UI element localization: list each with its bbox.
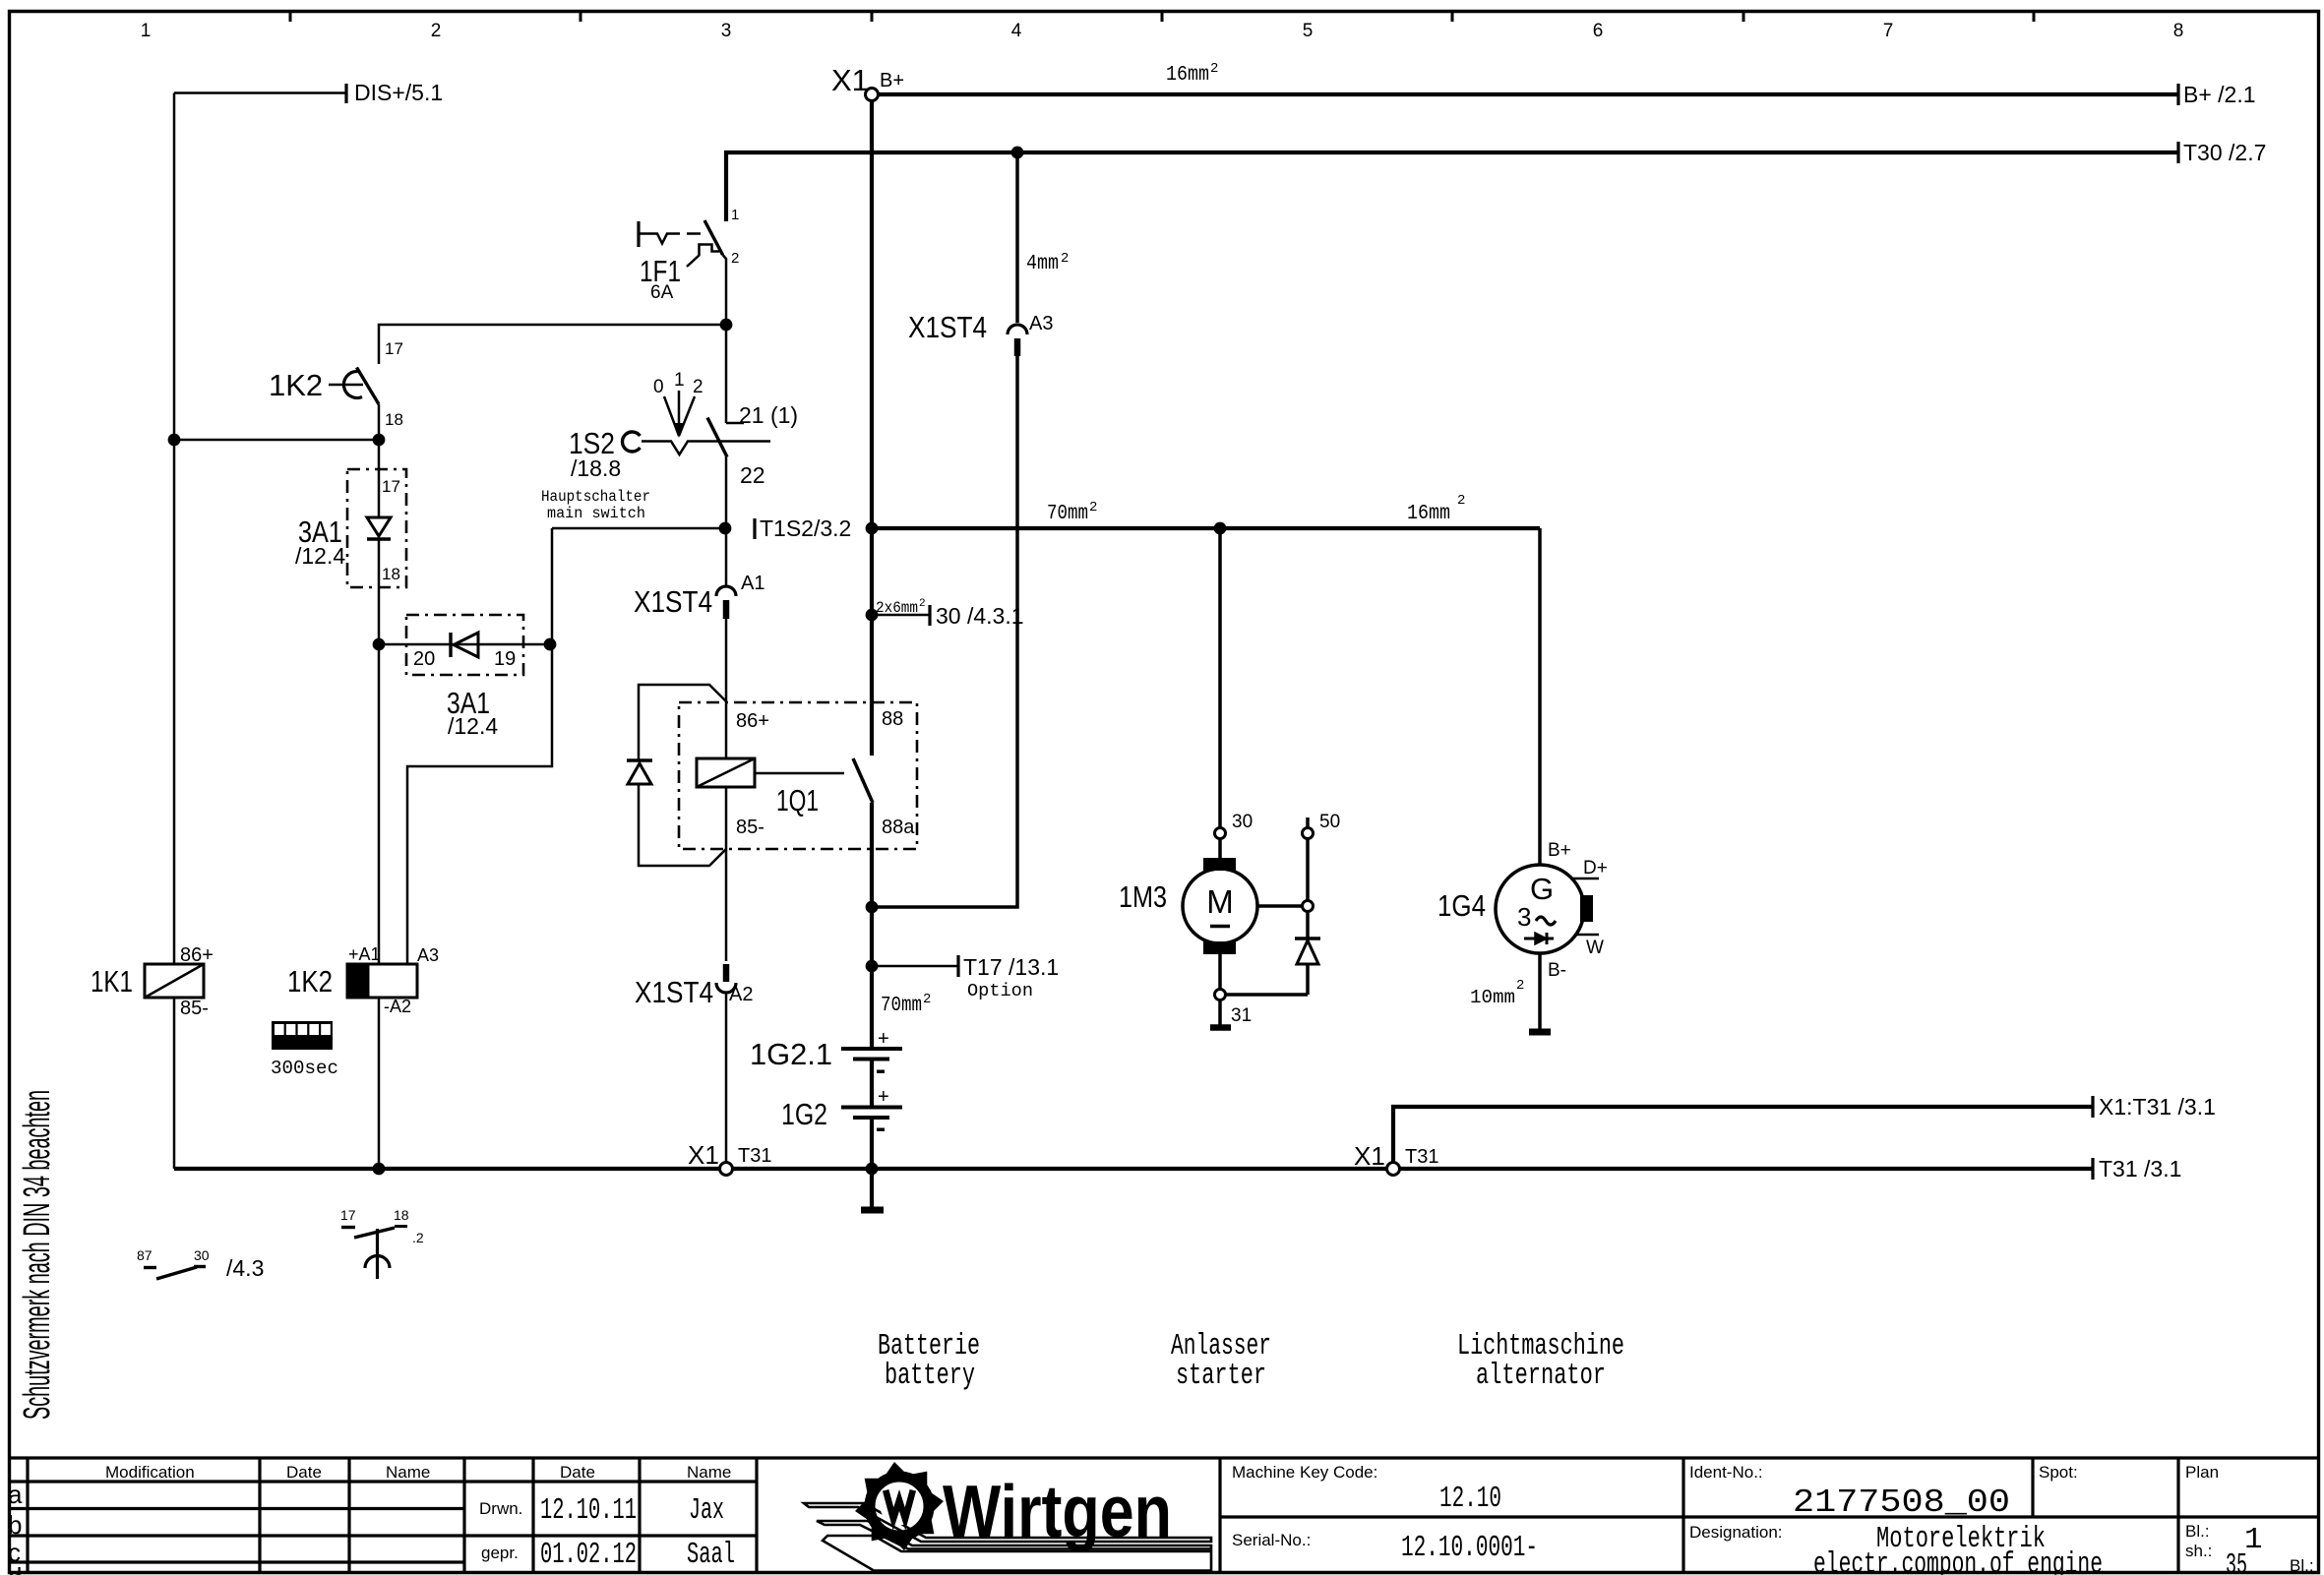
node junction (886,537) (866, 522, 879, 535)
svg-text:Machine Key Code:: Machine Key Code: (1232, 1463, 1377, 1482)
terminal X1 B+ circle (866, 89, 879, 101)
title header texts (105, 1463, 2314, 1575)
svg-text:1G2: 1G2 (781, 1097, 827, 1131)
wire battery to ground (870, 1118, 874, 1207)
svg-text:Serial-No.:: Serial-No.: (1232, 1531, 1311, 1549)
bottom bus T31 (174, 1167, 2093, 1171)
svg-text:2: 2 (731, 250, 739, 267)
svg-text:Bl.:: Bl.: (2290, 1556, 2314, 1575)
svg-text:19: 19 (494, 648, 516, 670)
fuse 1F1 (639, 152, 739, 325)
svg-text:Name: Name (687, 1463, 731, 1482)
node junction (385,1188) (373, 1163, 386, 1176)
svg-text:Hauptschalter: Hauptschalter (541, 488, 650, 506)
svg-text:A1: A1 (741, 573, 764, 594)
terminal tick B+ (2176, 84, 2179, 105)
svg-text:88a: 88a (882, 817, 915, 838)
svg-text:8: 8 (2173, 21, 2184, 41)
svg-text:/18.8: /18.8 (571, 455, 621, 481)
wire B+ 16mm2 (879, 92, 2179, 96)
svg-text:18: 18 (385, 410, 403, 429)
svg-text:18: 18 (382, 565, 400, 583)
relay coil 1K1 (91, 944, 214, 1019)
ground chassis bar battery (861, 1207, 884, 1214)
node junction (177,447) (168, 434, 181, 447)
svg-text:B+: B+ (1548, 840, 1571, 861)
svg-text:86+: 86+ (736, 710, 769, 732)
node junction T1S2 (737,537) (719, 522, 732, 535)
svg-text:alternator: alternator (1476, 1359, 1606, 1393)
svg-text:1G2.1: 1G2.1 (750, 1037, 832, 1071)
wire between cells (870, 1059, 874, 1107)
svg-text:1M3: 1M3 (1119, 879, 1167, 914)
terminal tick T17 (956, 955, 959, 977)
relay contact 1K2 (269, 368, 379, 405)
svg-text:2177508_00: 2177508_00 (1793, 1484, 2010, 1521)
svg-text:X1: X1 (688, 1140, 719, 1170)
svg-text:B+ /2.1: B+ /2.1 (2183, 82, 2256, 107)
svg-text:T17 /13.1: T17 /13.1 (963, 954, 1059, 980)
svg-text:A3: A3 (417, 945, 439, 965)
svg-text:T30 /2.7: T30 /2.7 (2183, 140, 2266, 165)
relay contact 1Q1 88 blade (853, 758, 873, 803)
svg-text:30: 30 (1232, 812, 1253, 832)
svg-text:Wirtgen: Wirtgen (943, 1470, 1172, 1552)
wire 4mm2 vertical (1015, 152, 1019, 323)
wire A1 to 1Q1 (725, 619, 728, 758)
svg-text:Saal: Saal (687, 1538, 735, 1572)
svg-text:Option: Option (967, 982, 1033, 1001)
svg-text:B-: B- (1548, 960, 1566, 981)
svg-text:+A1: +A1 (348, 944, 381, 964)
svg-text:12.10.0001-: 12.10.0001- (1401, 1531, 1538, 1565)
wire (738,537)-(738,597) (725, 528, 728, 587)
svg-text:M: M (1206, 883, 1234, 920)
svg-text:31: 31 (1231, 1005, 1252, 1026)
wire DIS+ horizontal (174, 91, 346, 94)
svg-text:battery: battery (885, 1359, 975, 1393)
svg-text:Spot:: Spot: (2039, 1463, 2078, 1482)
wire battery rail mid (870, 803, 874, 1049)
connector X1ST4 A1 (634, 573, 764, 619)
starter motor 1M3 (1119, 528, 1340, 1028)
svg-text:85-: 85- (736, 817, 764, 838)
svg-text:3: 3 (721, 21, 732, 41)
column numbers 1-8 (141, 21, 2184, 41)
svg-text:01.02.12: 01.02.12 (540, 1538, 637, 1572)
terminal tick X1:T31 (2091, 1096, 2094, 1118)
svg-text:T1S2/3.2: T1S2/3.2 (760, 515, 851, 541)
svg-text:5: 5 (1303, 21, 1314, 41)
svg-text:1K2: 1K2 (269, 368, 323, 402)
svg-text:Drwn.: Drwn. (479, 1499, 522, 1518)
svg-text:sh.:: sh.: (2185, 1542, 2212, 1560)
svg-text:0: 0 (653, 377, 664, 397)
svg-text:T31 /3.1: T31 /3.1 (2099, 1156, 2181, 1181)
svg-text:2: 2 (1210, 61, 1218, 77)
svg-text:2: 2 (693, 377, 703, 397)
svg-text:3: 3 (1517, 902, 1531, 932)
svg-text:Jax: Jax (689, 1493, 724, 1528)
svg-text:87: 87 (137, 1247, 153, 1263)
svg-text:Bl.:: Bl.: (2185, 1522, 2210, 1541)
svg-text:1: 1 (141, 21, 152, 41)
svg-text:A2: A2 (729, 984, 753, 1005)
battery 1G2 (781, 1086, 902, 1131)
svg-text:X1: X1 (831, 63, 869, 97)
node junction (385,655) (373, 638, 386, 651)
svg-text:electr.compon.of engine: electr.compon.of engine (1813, 1547, 2103, 1575)
svg-text:16mm: 16mm (1166, 64, 1209, 87)
svg-text:18: 18 (394, 1207, 409, 1223)
main switch 1S2 (541, 325, 798, 528)
svg-text:12.10.11: 12.10.11 (540, 1493, 637, 1528)
svg-text:X1ST4: X1ST4 (635, 975, 713, 1009)
svg-text:2: 2 (1516, 978, 1524, 994)
terminal tick T1S2 (753, 518, 756, 539)
svg-text:T31: T31 (1405, 1146, 1438, 1168)
svg-text:+: + (878, 1086, 889, 1108)
svg-text:T31: T31 (738, 1145, 771, 1167)
terminal tick 30/4.3.1 (928, 605, 931, 626)
svg-text:6: 6 (1593, 21, 1604, 41)
svg-text:1: 1 (674, 370, 685, 391)
svg-text:X1ST4: X1ST4 (634, 584, 712, 619)
wire (385,597)-(385,655) (378, 587, 381, 644)
svg-text:20: 20 (413, 648, 435, 670)
wire X1:T31 upper right (1393, 1107, 2093, 1162)
svg-text:2: 2 (431, 21, 442, 41)
wire stub 30/4.3.1 (872, 614, 930, 617)
node junction (886,625) 2x6mm2 (866, 609, 879, 622)
svg-text:Modification: Modification (105, 1463, 195, 1482)
terminal tick DIS+ (344, 84, 347, 103)
svg-text:X1ST4: X1ST4 (908, 310, 987, 344)
alternator 1G4 (1437, 528, 1608, 1032)
title values (540, 1482, 2263, 1575)
node junction (886,1188) (866, 1163, 879, 1176)
svg-text:6A: 6A (650, 282, 674, 303)
diode module 3A1 (20-19) (379, 615, 550, 739)
node junction (738,330) (720, 319, 733, 332)
svg-text:X1: X1 (1354, 1141, 1385, 1171)
svg-text:.2: .2 (412, 1230, 424, 1245)
terminal X1 T31 circle left (720, 1163, 733, 1176)
svg-text:17: 17 (340, 1207, 356, 1223)
wire T1S2 left segment (552, 527, 725, 530)
svg-text:X1:T31 /3.1: X1:T31 /3.1 (2099, 1094, 2216, 1120)
svg-text:70mm: 70mm (1047, 503, 1088, 525)
node junction (886,922) (866, 901, 879, 914)
svg-text:88: 88 (882, 708, 903, 730)
svg-text:1K1: 1K1 (91, 964, 133, 999)
svg-text:4: 4 (1011, 21, 1022, 41)
wire (177,447)-(385,447) (174, 439, 379, 442)
svg-text:G: G (1530, 872, 1554, 906)
svg-text:4mm: 4mm (1026, 253, 1059, 275)
terminal tick T30 (2176, 142, 2179, 163)
svg-text:85-: 85- (180, 998, 209, 1019)
logo gear (855, 1462, 944, 1550)
wire left vertical rail x=177 (173, 93, 176, 1170)
terminal X1 T31 circle right (1387, 1163, 1400, 1176)
svg-text:22: 22 (740, 462, 765, 488)
title row letters (8, 1480, 23, 1575)
diode module 3A1 (17-18) (295, 469, 406, 587)
svg-text:B+: B+ (880, 70, 904, 91)
svg-text:2: 2 (1061, 251, 1069, 267)
connector X1ST4 A3 (908, 310, 1053, 356)
svg-text:1: 1 (731, 207, 739, 223)
spare contact 87-30 (137, 1247, 264, 1281)
svg-text:Ident-No.:: Ident-No.: (1689, 1463, 1763, 1482)
svg-text:Date: Date (560, 1463, 595, 1482)
spare contact 17-18 .2 (340, 1207, 424, 1279)
relay coil 1K2 (timer) (287, 944, 439, 1016)
svg-text:17: 17 (385, 339, 403, 358)
svg-text:1G4: 1G4 (1437, 888, 1486, 923)
svg-text:W: W (1586, 938, 1604, 958)
wire (385,330)-(738,330) and down (379, 325, 726, 364)
node junction (886,982) T17 (866, 960, 879, 973)
wire 1K2 coil to bus (378, 998, 381, 1169)
node junction (559,655) (544, 638, 557, 651)
wire (385,655)-(385,980) to 1K2 coil +A1 (378, 644, 381, 964)
svg-text:Designation:: Designation: (1689, 1523, 1783, 1542)
svg-text:70mm: 70mm (881, 995, 922, 1017)
logo swoosh stripes (804, 1503, 1211, 1542)
wire stub T17 (872, 965, 958, 968)
wire 4mm2 lower + corner to battery line (872, 356, 1017, 907)
svg-text:1K2: 1K2 (287, 964, 333, 999)
svg-text:/4.3: /4.3 (226, 1255, 264, 1281)
svg-text:/12.4: /12.4 (448, 713, 498, 739)
svg-text:50: 50 (1319, 812, 1340, 832)
svg-text:d: d (8, 1562, 22, 1575)
svg-text:16mm: 16mm (1407, 503, 1450, 525)
svg-text:10mm: 10mm (1470, 987, 1515, 1008)
svg-text:300sec: 300sec (271, 1058, 338, 1079)
wire T1S2 corner to (559,655) and down to 1K2 coil A3 (407, 528, 552, 964)
svg-text:/12.4: /12.4 (295, 543, 345, 569)
svg-text:2: 2 (1457, 493, 1465, 509)
svg-text:2: 2 (923, 992, 931, 1007)
svg-text:1Q1: 1Q1 (776, 783, 819, 818)
wire battery rail upper (870, 100, 874, 756)
wire contact to junction (378, 404, 381, 469)
svg-text:starter: starter (1176, 1359, 1266, 1393)
column ruler ticks (290, 11, 2034, 22)
svg-text:Name: Name (386, 1463, 430, 1482)
node junction (1240,537) (1214, 522, 1227, 535)
svg-text:7: 7 (1883, 21, 1894, 41)
svg-text:30: 30 (194, 1247, 210, 1263)
svg-text:b: b (8, 1510, 22, 1540)
svg-text:gepr.: gepr. (481, 1544, 519, 1562)
wire A2 to bus (725, 992, 728, 1169)
wire 70mm2 main horizontal (872, 526, 1540, 530)
svg-text:a: a (8, 1480, 23, 1509)
svg-text:30 /4.3.1: 30 /4.3.1 (936, 603, 1024, 629)
svg-text:12.10: 12.10 (1439, 1482, 1501, 1516)
svg-text:Date: Date (286, 1463, 322, 1482)
title block lines (9, 1458, 2319, 1573)
timer DIP 300sec (271, 1021, 338, 1079)
svg-text:2: 2 (1089, 500, 1097, 515)
connector X1ST4 A2 (635, 964, 753, 1009)
Wirtgen logo (804, 1462, 1211, 1571)
svg-text:21 (1): 21 (1) (739, 402, 798, 428)
node junction (1034,155) (1011, 147, 1024, 159)
svg-text:17: 17 (382, 477, 400, 496)
relay 1Q1 (627, 685, 917, 961)
svg-text:Plan: Plan (2185, 1463, 2219, 1482)
battery 1G2.1 (750, 1028, 902, 1073)
svg-text:A3: A3 (1029, 313, 1053, 334)
node junction (385,447) (373, 434, 386, 447)
wire T30 horizontal (726, 152, 2178, 221)
svg-text:D+: D+ (1583, 858, 1608, 878)
svg-text:Schutzvermerk nach DIN 34 beac: Schutzvermerk nach DIN 34 beachten (17, 1090, 58, 1420)
svg-text:DIS+/5.1: DIS+/5.1 (354, 80, 443, 105)
terminal tick T31/3.1 (2091, 1158, 2094, 1180)
svg-text:-A2: -A2 (384, 997, 411, 1016)
svg-text:2x6mm: 2x6mm (876, 599, 918, 617)
svg-text:+: + (878, 1028, 889, 1050)
svg-text:35: 35 (2226, 1548, 2247, 1575)
svg-text:main switch: main switch (547, 505, 645, 522)
svg-text:2: 2 (919, 598, 926, 610)
